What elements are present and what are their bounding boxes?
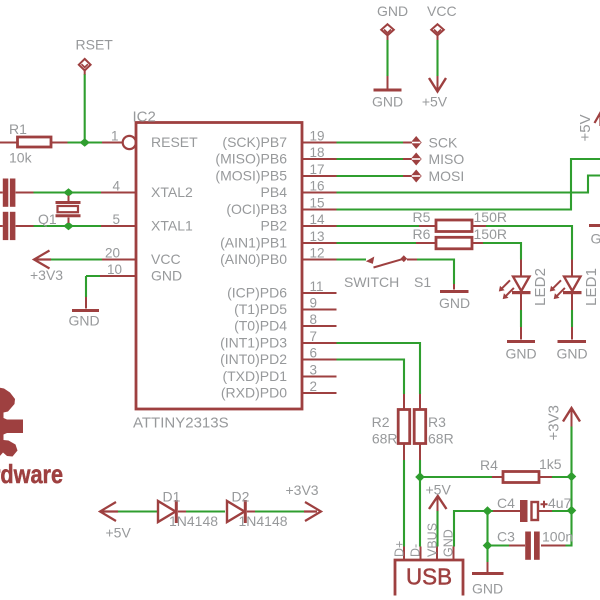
- svg-text:VCC: VCC: [151, 251, 181, 267]
- svg-text:rdware: rdware: [0, 459, 63, 489]
- svg-text:1: 1: [111, 129, 119, 144]
- svg-text:(MOSI)PB5: (MOSI)PB5: [215, 168, 287, 184]
- svg-text:R6: R6: [413, 226, 431, 242]
- svg-text:C3: C3: [497, 529, 515, 545]
- svg-text:RESET: RESET: [151, 134, 198, 150]
- svg-text:GND: GND: [505, 346, 536, 362]
- svg-text:5: 5: [112, 212, 120, 227]
- svg-text:1k5: 1k5: [539, 456, 562, 472]
- svg-text:100n: 100n: [542, 529, 573, 545]
- svg-text:RSET: RSET: [76, 37, 114, 53]
- svg-text:10k: 10k: [9, 150, 33, 166]
- svg-text:11: 11: [310, 279, 324, 294]
- svg-text:GND: GND: [68, 313, 99, 329]
- svg-text:14: 14: [310, 212, 326, 227]
- svg-text:C4: C4: [497, 495, 515, 511]
- svg-text:+3V3: +3V3: [546, 405, 563, 440]
- svg-text:D2: D2: [232, 489, 250, 505]
- svg-text:1N4148: 1N4148: [169, 513, 218, 529]
- svg-text:2: 2: [310, 379, 318, 394]
- svg-text:(MISO)PB6: (MISO)PB6: [215, 151, 287, 167]
- svg-text:R3: R3: [428, 414, 446, 430]
- svg-text:(SCK)PB7: (SCK)PB7: [222, 134, 287, 150]
- svg-text:6: 6: [310, 346, 318, 361]
- svg-text:SCK: SCK: [429, 135, 458, 151]
- svg-text:XTAL1: XTAL1: [151, 218, 193, 234]
- svg-text:MOSI: MOSI: [429, 168, 465, 184]
- svg-text:GND: GND: [442, 529, 456, 557]
- svg-text:7: 7: [310, 329, 318, 344]
- svg-text:18: 18: [310, 145, 325, 160]
- svg-text:MISO: MISO: [429, 151, 465, 167]
- svg-text:VBUS: VBUS: [426, 523, 440, 557]
- svg-text:ATTINY2313S: ATTINY2313S: [133, 415, 229, 432]
- svg-text:LED1: LED1: [583, 268, 600, 306]
- svg-text:GND: GND: [377, 3, 408, 19]
- svg-text:(INT0)PD2: (INT0)PD2: [220, 351, 287, 367]
- svg-text:(INT1)PD3: (INT1)PD3: [220, 335, 287, 351]
- svg-text:15: 15: [310, 196, 325, 211]
- svg-text:19: 19: [310, 129, 325, 144]
- svg-text:GND: GND: [372, 94, 403, 110]
- svg-text:GND: GND: [151, 268, 182, 284]
- svg-text:IC2: IC2: [133, 109, 156, 126]
- svg-text:USB: USB: [406, 564, 452, 590]
- svg-text:+5V: +5V: [577, 114, 594, 141]
- svg-text:(ICP)PD6: (ICP)PD6: [227, 285, 287, 301]
- svg-text:(OCI)PB3: (OCI)PB3: [226, 201, 287, 217]
- svg-text:17: 17: [310, 162, 325, 177]
- svg-text:68R: 68R: [372, 431, 398, 447]
- svg-text:150R: 150R: [474, 209, 507, 225]
- svg-text:R5: R5: [413, 209, 431, 225]
- svg-text:Q1: Q1: [38, 211, 57, 227]
- svg-text:GND: GND: [439, 295, 470, 311]
- svg-text:+5V: +5V: [106, 525, 132, 541]
- svg-text:8: 8: [310, 312, 318, 327]
- svg-text:3: 3: [310, 363, 318, 378]
- svg-text:150R: 150R: [474, 226, 507, 242]
- svg-text:R2: R2: [372, 414, 390, 430]
- svg-text:(RXD)PD0: (RXD)PD0: [221, 385, 287, 401]
- svg-text:1N4148: 1N4148: [239, 513, 288, 529]
- svg-text:LED2: LED2: [532, 268, 549, 306]
- svg-text:GND: GND: [591, 231, 600, 247]
- svg-text:PB2: PB2: [261, 218, 288, 234]
- svg-text:(AIN0)PB0: (AIN0)PB0: [220, 251, 287, 267]
- svg-text:(T0)PD4: (T0)PD4: [234, 318, 287, 334]
- svg-text:(TXD)PD1: (TXD)PD1: [222, 368, 287, 384]
- svg-text:12: 12: [310, 246, 325, 261]
- svg-text:XTAL2: XTAL2: [151, 184, 193, 200]
- svg-text:+3V3: +3V3: [286, 482, 319, 498]
- svg-text:(T1)PD5: (T1)PD5: [234, 301, 287, 317]
- svg-text:13: 13: [310, 229, 325, 244]
- svg-text:D1: D1: [163, 489, 181, 505]
- svg-text:4: 4: [112, 179, 120, 194]
- svg-text:20: 20: [105, 246, 120, 261]
- svg-text:R4: R4: [480, 457, 498, 473]
- svg-text:GND: GND: [556, 346, 587, 362]
- svg-text:+5V: +5V: [426, 482, 452, 498]
- svg-text:(AIN1)PB1: (AIN1)PB1: [220, 235, 287, 251]
- svg-text:D-: D-: [409, 544, 423, 557]
- svg-text:16: 16: [310, 179, 325, 194]
- svg-text:9: 9: [310, 296, 318, 311]
- svg-text:D+: D+: [393, 541, 407, 557]
- svg-text:GND: GND: [472, 581, 503, 597]
- svg-text:R1: R1: [9, 121, 27, 137]
- svg-text:PB4: PB4: [261, 184, 288, 200]
- svg-text:SWITCH: SWITCH: [344, 274, 399, 290]
- svg-text:68R: 68R: [428, 431, 454, 447]
- svg-text:+5V: +5V: [422, 94, 448, 110]
- svg-text:4u7: 4u7: [548, 495, 572, 511]
- svg-text:+3V3: +3V3: [30, 267, 63, 283]
- svg-text:S1: S1: [414, 274, 431, 290]
- svg-text:VCC: VCC: [427, 3, 457, 19]
- svg-text:10: 10: [107, 262, 122, 277]
